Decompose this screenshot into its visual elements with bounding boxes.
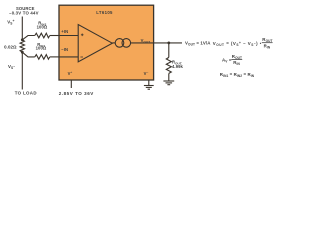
label ROUT 4.99k: [172, 59, 184, 69]
wire RIN1 to -IN: [50, 56, 60, 58]
node SOURCE label: [9, 6, 39, 16]
equation AV gain: [222, 54, 242, 66]
wire -IN internal: [60, 56, 79, 58]
svg-text:0.02Ω: 0.02Ω: [4, 45, 17, 50]
current mirror circle 2: [122, 39, 131, 48]
svg-text:100Ω: 100Ω: [36, 45, 47, 50]
wire source bus top: [21, 17, 23, 41]
op-amp A1: [78, 25, 112, 62]
wire mirror to VOUT pin: [131, 42, 154, 44]
junction VS+: [21, 38, 24, 41]
svg-text:–IN: –IN: [61, 47, 68, 52]
junction VOUT node: [167, 42, 170, 45]
wire VOUT external: [154, 42, 182, 44]
ground under ROUT: [163, 81, 174, 85]
label RIN2 100ohm: [37, 20, 48, 29]
wire source bus bottom: [21, 52, 23, 89]
svg-text:4.99k: 4.99k: [172, 64, 184, 69]
wire ROUT to ground: [168, 73, 170, 80]
resistor RIN2: [35, 33, 50, 38]
wire VOUT node to ROUT: [168, 43, 170, 58]
wire V+ supply: [70, 80, 72, 88]
equation VOUT gain: [213, 37, 273, 49]
IC U1 LT6105 body: [59, 5, 154, 80]
ground under V-: [144, 86, 154, 90]
resistor RS shunt: [20, 40, 24, 52]
resistor ROUT: [166, 57, 171, 73]
svg-text:2.85V TO 36V: 2.85V TO 36V: [59, 91, 94, 96]
wire RIN2 to +IN: [50, 35, 60, 37]
junction VS-: [21, 51, 24, 54]
wire VS+ to RIN2: [22, 36, 35, 40]
wire VS- to RIN1: [22, 52, 35, 57]
current mirror circle 1: [115, 39, 124, 48]
svg-text:+IN: +IN: [61, 29, 68, 34]
svg-text:100Ω: 100Ω: [37, 25, 48, 30]
op-amp plus input mark: [81, 34, 84, 37]
svg-text:–0.3V TO 44V: –0.3V TO 44V: [9, 10, 39, 15]
svg-text:LT6105: LT6105: [96, 10, 113, 15]
wire +IN internal: [60, 35, 79, 37]
label RIN1 100ohm: [36, 42, 47, 50]
wire op-amp to current mirror: [112, 42, 115, 44]
svg-text:TO LOAD: TO LOAD: [15, 91, 37, 96]
op-amp minus input mark: [80, 56, 83, 58]
resistor RIN1: [35, 55, 50, 60]
wire V- to ground: [148, 80, 150, 85]
